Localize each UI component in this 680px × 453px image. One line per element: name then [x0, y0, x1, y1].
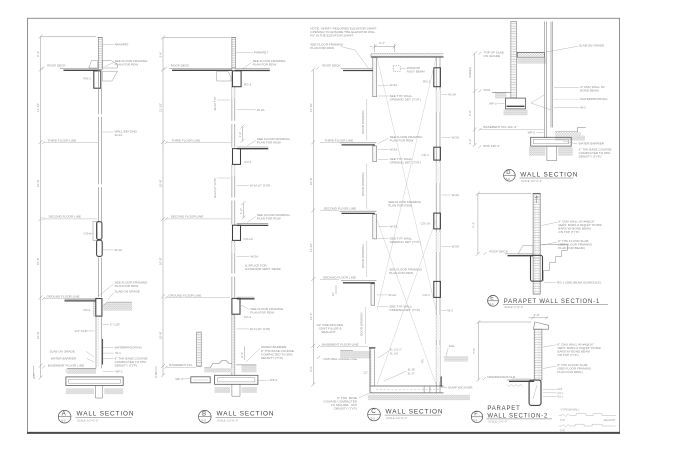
svg-text:C: C: [371, 408, 376, 415]
svg-text:DOOR OPENING: DOOR OPENING: [361, 244, 365, 268]
premolded joint label C: [316, 323, 344, 334]
label W-2A gyp right B: [237, 184, 271, 188]
svg-text:BASEMENT FLOOR LINE: BASEMENT FLOOR LINE: [48, 364, 84, 368]
svg-text:PARAPET WALL SECTION-1: PARAPET WALL SECTION-1: [504, 299, 600, 305]
label splice B: [244, 263, 281, 271]
svg-text:GYPSUM WALL: GYPSUM WALL: [561, 408, 580, 412]
dimension line F: [472, 320, 531, 382]
dimension line D: [468, 52, 477, 148]
svg-text:PLAN FOR RDW: PLAN FOR RDW: [310, 46, 334, 50]
dim 12 C ground: [331, 285, 336, 297]
svg-text:CO-1: CO-1: [244, 315, 252, 319]
svg-text:THIRD FLOOR LINE: THIRD FLOOR LINE: [48, 139, 77, 143]
footing A: [66, 377, 123, 386]
door jamb line C roof: [366, 99, 368, 141]
ground floor line B: [165, 293, 231, 299]
svg-text:BASEMENT FFL: BASEMENT FFL: [169, 363, 193, 367]
svg-text:WF-2: WF-2: [270, 378, 278, 382]
svg-text:PLAN FOR RDW: PLAN FOR RDW: [115, 284, 139, 288]
roof deck B: [164, 64, 232, 71]
svg-text:W-2A: W-2A: [390, 83, 399, 87]
beam RG-1 A: [84, 71, 101, 88]
wf-3 footing D: [489, 98, 527, 115]
svg-text:SEALANT: SEALANT: [321, 330, 335, 334]
svg-text:WATER BARRIER: WATER BARRIER: [579, 142, 605, 146]
parapet wall A: [97, 38, 102, 70]
svg-text:11'-10": 11'-10": [159, 103, 163, 112]
waterproofing bar C: [440, 377, 442, 387]
basement floor line C: [317, 342, 368, 348]
dimension line C left: [309, 68, 315, 387]
beam CO-1 right C ground: [423, 281, 441, 297]
title E: [488, 295, 608, 309]
svg-text:WALL SECTION: WALL SECTION: [77, 411, 135, 418]
label W-2A C roof: [378, 83, 398, 87]
svg-text:2'-2": 2'-2": [468, 139, 472, 145]
svg-text:ROOF DECK: ROOF DECK: [489, 250, 508, 254]
svg-text:W-2A: W-2A: [452, 193, 461, 197]
svg-text:OPENING DET. [TYP.]: OPENING DET. [TYP.]: [390, 161, 421, 165]
roof framing right B: [235, 69, 270, 71]
svg-text:EL 101'-2": EL 101'-2": [390, 348, 402, 352]
svg-text:ROOF DECK: ROOF DECK: [47, 64, 66, 68]
svg-text:B: B: [202, 410, 206, 417]
svg-text:RG-1 (SEE BEAM SCHEDULE): RG-1 (SEE BEAM SCHEDULE): [557, 280, 601, 284]
slab on grade D: [517, 52, 546, 63]
sog label left D: [479, 88, 511, 98]
beam RG-1 B: [233, 71, 252, 87]
right hatch basement B: [236, 365, 256, 373]
left flashing E: [518, 245, 533, 254]
svg-text:EXTERIOR VERT. REINF: EXTERIOR VERT. REINF: [245, 267, 281, 271]
natural grade line C: [317, 356, 357, 361]
svg-text:WALL SECTION: WALL SECTION: [217, 411, 275, 418]
svg-text:VARIES: VARIES: [468, 67, 472, 78]
svg-text:WF-1: WF-1: [115, 370, 123, 374]
joint profile inset: [559, 408, 617, 433]
top dim F: [529, 313, 549, 320]
sheet border: [27, 18, 620, 433]
label opening det C third: [378, 157, 421, 165]
svg-text:SCALE: 1/2"=1'-0": SCALE: 1/2"=1'-0": [217, 418, 238, 422]
svg-text:BOND BEAM: BOND BEAM: [580, 89, 599, 93]
cmu wall label F: [543, 342, 601, 357]
earth below pit slab C: [368, 395, 470, 400]
svg-text:SEALANT: SEALANT: [604, 418, 616, 422]
svg-text:2'-0": 2'-0": [32, 373, 36, 379]
svg-text:SUMP W/COVER: SUMP W/COVER: [448, 385, 473, 389]
label slab on grade right A: [108, 289, 140, 299]
wall section A: [32, 35, 148, 424]
flashing left of parapet A: [89, 61, 98, 69]
svg-text:ASSY BEAM: ASSY BEAM: [407, 69, 425, 73]
label see floor framing A ground: [98, 281, 148, 297]
shaft diagonals C: [377, 58, 436, 385]
svg-text:10'-8": 10'-8": [159, 257, 163, 265]
dim 1-2 B third: [238, 125, 244, 144]
svg-text:CO-1A: CO-1A: [421, 222, 431, 226]
svg-text:W-2A: W-2A: [251, 255, 260, 259]
svg-text:FGL: FGL: [449, 344, 455, 348]
svg-text:1'-2": 1'-2": [238, 132, 242, 138]
title A: [58, 410, 134, 423]
label opening det C second: [378, 237, 421, 245]
stepped slab B: [204, 361, 232, 373]
svg-text:RG-1: RG-1: [244, 83, 252, 87]
svg-text:THIRD FLOOR LINE: THIRD FLOOR LINE: [172, 139, 201, 143]
svg-text:RG-1: RG-1: [84, 77, 92, 81]
right wall C: [436, 58, 440, 393]
flashing right of parapet A: [103, 61, 118, 69]
beam CO-1 right C third: [422, 147, 441, 160]
svg-text:PARAPET: PARAPET: [487, 406, 520, 412]
label wall beyond A: [103, 129, 138, 137]
bof label D: [479, 144, 501, 148]
roof deck C: [316, 64, 373, 71]
ground floor line C: [320, 275, 356, 279]
svg-text:W-2A: W-2A: [448, 93, 457, 97]
door jamb line C third: [366, 164, 368, 210]
third floor line B: [165, 139, 232, 145]
svg-text:1'-2": 1'-2": [239, 208, 243, 214]
svg-text:THIRD FLOOR LINE: THIRD FLOOR LINE: [325, 139, 354, 143]
cmu wall E: [533, 194, 541, 295]
svg-text:W-2A: W-2A: [452, 136, 461, 140]
cmu wall F: [534, 329, 542, 380]
title C: [368, 408, 444, 421]
svg-text:5-9: 5-9: [473, 418, 477, 422]
deck label F: [483, 375, 531, 380]
svg-text:PLAN FOR RDW: PLAN FOR RDW: [253, 63, 277, 67]
svg-text:10'-8": 10'-8": [36, 179, 40, 187]
svg-text:SCALE: 1/2"=1'-0": SCALE: 1/2"=1'-0": [386, 416, 407, 420]
title F: [471, 406, 552, 424]
base course label C: [323, 392, 372, 410]
roof deck E: [505, 254, 533, 256]
right label W-2A C mid2: [442, 193, 461, 197]
svg-text:BOF 198'-4": BOF 198'-4": [484, 144, 501, 148]
svg-text:GROUND FLOOR LINE: GROUND FLOOR LINE: [168, 293, 201, 297]
svg-text:EL 97': EL 97': [408, 371, 416, 375]
labels right basement B: [246, 345, 294, 362]
basement slab A: [66, 368, 96, 374]
right wall D: [545, 22, 553, 139]
right cornice steps E: [540, 244, 567, 281]
pit slab C: [370, 386, 444, 393]
pier footing WF-3 B: [175, 377, 210, 383]
wall A upper shaft: [98, 70, 101, 222]
shaft top slab C: [371, 54, 444, 58]
svg-text:W-2A: W-2A: [257, 108, 266, 112]
note text C: [310, 27, 377, 38]
label see floor framing B ground: [241, 305, 284, 314]
svg-text:10'-8": 10'-8": [159, 331, 163, 339]
svg-text:2'-4": 2'-4": [240, 352, 244, 358]
floor slab label E: [543, 239, 593, 250]
label see floor framing A roof: [105, 59, 149, 67]
svg-text:W-2A TYP: W-2A TYP: [213, 97, 217, 111]
dim 1-2 B second: [239, 201, 245, 220]
svg-text:2'-0": 2'-0": [468, 110, 472, 116]
svg-text:W-2 (10" GYP): W-2 (10" GYP): [250, 327, 270, 331]
panel W-1A A: [97, 240, 123, 256]
svg-text:ROOF DECK: ROOF DECK: [322, 64, 341, 68]
second floor line A: [42, 214, 97, 220]
svg-text:FD-2: FD-2: [84, 308, 91, 312]
parapet wall section 2 F: [471, 313, 616, 433]
svg-text:13'-4": 13'-4": [309, 312, 313, 320]
dim 2-4 B basement: [240, 347, 244, 361]
pit left wall C: [369, 348, 375, 393]
label W-2A C third: [378, 148, 398, 152]
right label W-2A C lower: [442, 245, 461, 249]
svg-text:10'-8": 10'-8": [36, 331, 40, 339]
top dim 2-1 C: [370, 41, 397, 52]
cornice right lower A: [103, 71, 118, 81]
label W-2A gyp rotated B: [213, 178, 230, 198]
svg-text:PARAPET: PARAPET: [254, 51, 268, 55]
svg-text:SCALE: 1/2"=1'-0": SCALE: 1/2"=1'-0": [521, 179, 542, 183]
svg-text:PLAN FOR RDW.: PLAN FOR RDW.: [388, 204, 413, 208]
svg-text:DENSITY (TYP): DENSITY (TYP): [115, 363, 137, 367]
dimension line B: [154, 35, 230, 378]
svg-text:SCALE: 1"=1'-0": SCALE: 1"=1'-0": [488, 420, 507, 424]
svg-text:W-2A: W-2A: [390, 148, 399, 152]
left wall C top segment: [373, 58, 377, 97]
svg-text:PLAN FOR RDW: PLAN FOR RDW: [115, 63, 139, 67]
earth below footing B: [215, 387, 257, 393]
svg-text:OPENING DET. [TYP.]: OPENING DET. [TYP.]: [390, 240, 421, 244]
svg-text:7'-4": 7'-4": [472, 222, 476, 228]
svg-text:SOG: SOG: [484, 88, 491, 92]
coping cap F: [533, 322, 548, 329]
svg-text:DOOR OPENING: DOOR OPENING: [360, 312, 364, 336]
svg-text:W-2A: W-2A: [388, 293, 397, 297]
right labels C upper: [442, 93, 457, 97]
foundation top A: [75, 299, 121, 333]
wall section D: [468, 22, 612, 184]
beam CO-1A right C second: [421, 213, 441, 229]
ground floor line A: [42, 294, 96, 300]
label see floor framing C mid: [388, 200, 421, 208]
label see floor framing C top: [310, 43, 368, 68]
second floor line B: [165, 214, 232, 220]
label W-2A C second: [378, 225, 398, 229]
labels water barrier D: [563, 141, 612, 158]
svg-text:W-1A: W-1A: [115, 133, 124, 137]
svg-text:OPENING DET. [TYP.]: OPENING DET. [TYP.]: [390, 97, 421, 101]
cmu wall label E: [542, 220, 602, 235]
label see floor framing B third: [247, 137, 290, 146]
svg-text:CO-1: CO-1: [422, 153, 430, 157]
svg-text:12": 12": [364, 371, 368, 375]
label PARAPET B: [237, 51, 269, 55]
rg-1 label E: [544, 280, 601, 284]
floor slab label F: [543, 363, 592, 374]
title B: [199, 410, 275, 423]
svg-text:PLAN FOR RDW: PLAN FOR RDW: [257, 140, 281, 144]
label see floor framing B roof: [243, 59, 286, 68]
svg-text:SCALE: 1/2"=1'-0": SCALE: 1/2"=1'-0": [77, 418, 98, 422]
label opening det C roof: [378, 94, 421, 102]
beam F: [529, 380, 541, 405]
door jamb line C ground: [365, 307, 367, 344]
svg-text:W-2A (2" GYP): W-2A (2" GYP): [213, 178, 217, 198]
svg-text:CO-1: CO-1: [557, 391, 564, 395]
right label W-2 C ground: [442, 308, 454, 312]
svg-text:EL 98': EL 98': [408, 367, 416, 371]
svg-text:EL 100': EL 100': [390, 352, 399, 356]
door jamb line C second: [366, 241, 368, 277]
svg-text:WF-2: WF-2: [528, 130, 536, 134]
ground floor framing B: [232, 297, 255, 319]
label see floor framing C third: [378, 135, 423, 144]
svg-text:11'-10": 11'-10": [309, 103, 313, 112]
label W-2A C ground: [377, 293, 397, 297]
svg-text:TYP.: TYP.: [560, 428, 566, 432]
svg-text:GROUND FLOOR LINE: GROUND FLOOR LINE: [47, 294, 80, 298]
svg-text:FIT IN THE ELEVATOR SHAFT.: FIT IN THE ELEVATOR SHAFT.: [310, 34, 354, 38]
svg-text:5-0: 5-0: [201, 419, 206, 423]
leaders to wall D: [531, 95, 551, 110]
svg-text:ON TOP (TYP.): ON TOP (TYP.): [557, 353, 578, 357]
deck line F: [507, 380, 534, 387]
svg-text:11'-10": 11'-10": [309, 243, 313, 252]
second floor L C: [339, 211, 376, 239]
right stacked labels F: [543, 387, 564, 398]
svg-text:WATERPROOFING: WATERPROOFING: [115, 346, 143, 350]
third floor framing B: [233, 147, 269, 164]
svg-text:11'-10": 11'-10": [36, 103, 40, 112]
svg-text:WATERPROOFING: WATERPROOFING: [580, 97, 608, 101]
title D: [504, 170, 579, 184]
beam RG-1 E: [531, 255, 543, 281]
parapet wall section 1 E: [472, 192, 609, 310]
svg-text:2'-4": 2'-4": [159, 52, 163, 58]
roof deck label E: [484, 250, 509, 255]
labels right wall D: [554, 85, 608, 110]
wall section C elevator shaft: [309, 27, 473, 421]
svg-text:GROUND FLOOR LINE: GROUND FLOOR LINE: [323, 275, 356, 279]
svg-text:PLAN FOR RDW.): PLAN FOR RDW.): [557, 370, 582, 374]
svg-text:SLAB ON GRADE: SLAB ON GRADE: [50, 349, 75, 353]
basement ffl B: [165, 363, 197, 369]
svg-text:D: D: [506, 170, 510, 176]
beam RG-1 right C: [423, 68, 440, 87]
svg-text:F: F: [474, 412, 478, 418]
third floor line A: [42, 139, 98, 145]
svg-text:W-1: W-1: [115, 351, 121, 355]
wall B mid: [232, 164, 235, 224]
svg-text:PLAN FOR RDW: PLAN FOR RDW: [257, 217, 281, 221]
third floor L C: [339, 143, 376, 162]
svg-text:SECOND FLOOR LINE: SECOND FLOOR LINE: [171, 214, 204, 218]
svg-text:ON GRADE: ON GRADE: [484, 54, 501, 58]
svg-text:5-0: 5-0: [61, 419, 66, 423]
svg-text:DENSITY (TYP): DENSITY (TYP): [261, 356, 283, 360]
svg-text:PLAN FOR BEAM.): PLAN FOR BEAM.): [558, 246, 585, 250]
label W-2A right lower B: [237, 255, 260, 259]
svg-text:2'-0": 2'-0": [534, 313, 540, 317]
svg-text:RG-1: RG-1: [423, 80, 431, 84]
second floor line C: [320, 207, 356, 211]
svg-text:10'-8": 10'-8": [159, 179, 163, 187]
svg-text:W-2: W-2: [580, 106, 586, 110]
svg-text:ON TOP (TYP.): ON TOP (TYP.): [558, 230, 579, 234]
flashing left B: [217, 71, 231, 81]
dimension line A: [32, 35, 96, 380]
parapet wall B: [231, 37, 236, 68]
svg-text:7'-8": 7'-8": [472, 348, 476, 354]
roof deck A: [42, 64, 99, 71]
svg-text:PLAN FOR RDW: PLAN FOR RDW: [390, 138, 414, 142]
svg-text:5-0: 5-0: [371, 416, 376, 420]
label see floor framing C ground: [389, 268, 422, 276]
third floor line C: [320, 139, 353, 143]
labels left basement A: [42, 349, 94, 368]
svg-text:W-2: W-2: [447, 308, 453, 312]
earth below footing A: [66, 388, 123, 394]
pier below footing A: [95, 386, 102, 399]
svg-text:DRS/DNS/SNS FLR: DRS/DNS/SNS FLR: [487, 375, 516, 379]
svg-text:DOOR OPENING: DOOR OPENING: [361, 110, 365, 134]
svg-text:W-2A (2" GYP): W-2A (2" GYP): [250, 184, 271, 188]
svg-text:WATER BARRIER: WATER BARRIER: [51, 357, 77, 361]
label W-2A right B: [237, 108, 266, 112]
label slab on grade right D: [547, 44, 605, 52]
svg-text:W-1A: W-1A: [114, 248, 123, 252]
label top of slab D: [479, 51, 504, 59]
pier below footing D: [547, 146, 557, 161]
main footing B: [215, 375, 278, 384]
svg-text:1/4" CLR: 1/4" CLR: [75, 329, 88, 333]
ground floor L C: [341, 281, 377, 306]
svg-text:WF-3: WF-3: [175, 377, 183, 381]
svg-text:BASEMENT FLOOR LINE: BASEMENT FLOOR LINE: [322, 342, 358, 346]
svg-text:W-2A: W-2A: [390, 225, 399, 229]
wall A below window: [98, 258, 101, 297]
grade hatch left C: [340, 351, 370, 359]
wall B basement: [232, 314, 235, 375]
svg-text:PLAN FOR RDW.: PLAN FOR RDW.: [389, 271, 414, 275]
svg-text:3'-6": 3'-6": [309, 366, 313, 372]
svg-text:SECOND FLOOR LINE: SECOND FLOOR LINE: [324, 207, 357, 211]
svg-text:SLAB ON GRADE: SLAB ON GRADE: [115, 289, 140, 293]
window CO-1 A: [84, 221, 102, 240]
svg-text:WALL SECTION-2: WALL SECTION-2: [487, 413, 548, 419]
label opening det C ground: [378, 304, 420, 312]
beam dashed box C: [393, 66, 425, 74]
svg-text:CO-1: CO-1: [423, 293, 431, 297]
svg-text:DOOR OPENING: DOOR OPENING: [361, 172, 365, 196]
main footing D: [531, 137, 572, 146]
svg-text:5-9: 5-9: [490, 302, 494, 306]
svg-text:5-0: 5-0: [506, 177, 510, 181]
labels right basement A: [103, 346, 148, 374]
sump C: [424, 386, 430, 393]
pier below footing B: [232, 384, 240, 396]
label W-2A TYP rotated B: [213, 97, 230, 111]
svg-text:WALL SECTION: WALL SECTION: [386, 408, 444, 415]
svg-text:PARAPET: PARAPET: [115, 43, 129, 47]
svg-text:DENSITY (TYP.): DENSITY (TYP.): [334, 406, 357, 410]
wall B shaft upper: [232, 68, 235, 148]
svg-text:BASEMENT FFL 201'-4": BASEMENT FFL 201'-4": [484, 125, 518, 129]
wall section B: [154, 35, 294, 423]
svg-text:SECOND FLOOR LINE: SECOND FLOOR LINE: [49, 214, 82, 218]
svg-text:E: E: [490, 296, 494, 302]
second floor framing B: [233, 224, 269, 241]
